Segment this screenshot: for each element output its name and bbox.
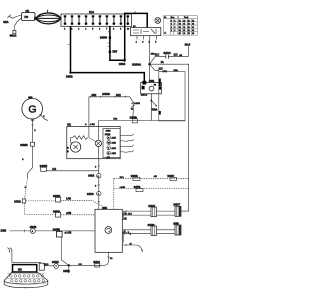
svg-text:8: 8 <box>171 30 172 32</box>
svg-text:23D6: 23D6 <box>119 62 126 66</box>
svg-text:A/D: A/D <box>107 156 111 159</box>
svg-text:31: 31 <box>130 243 132 245</box>
svg-text:7/9: 7/9 <box>24 15 29 19</box>
svg-text:1: 1 <box>64 28 65 30</box>
svg-text:10.6: 10.6 <box>185 42 191 46</box>
svg-text:24DB: 24DB <box>53 209 60 213</box>
svg-text:6/32: 6/32 <box>92 94 97 97</box>
svg-text:16: 16 <box>192 24 194 26</box>
svg-text:11C: 11C <box>155 54 159 57</box>
svg-text:2: 2 <box>43 116 45 118</box>
svg-text:8/3A4: 8/3A4 <box>10 35 17 38</box>
svg-text:50: 50 <box>154 85 157 87</box>
svg-text:1/1: 1/1 <box>26 9 30 13</box>
svg-text:4/24B: 4/24B <box>30 226 37 229</box>
svg-text:24DC: 24DC <box>93 261 100 264</box>
svg-text:24M: 24M <box>173 221 179 225</box>
svg-text:17: 17 <box>192 27 194 29</box>
svg-text:7/1B: 7/1B <box>151 53 156 55</box>
svg-text:7: 7 <box>106 28 107 30</box>
svg-text:2A: 2A <box>161 61 164 64</box>
svg-text:1/2A: 1/2A <box>174 69 179 72</box>
svg-text:Fu: Fu <box>164 17 166 19</box>
svg-text:32: 32 <box>188 24 190 26</box>
svg-text:4/51: 4/51 <box>102 206 108 210</box>
svg-text:6: 6 <box>95 166 97 168</box>
svg-text:A2/B: A2/B <box>112 142 117 145</box>
svg-text:24DC: 24DC <box>164 51 171 55</box>
svg-text:8: 8 <box>142 41 144 43</box>
svg-text:A2/A: A2/A <box>112 136 117 139</box>
svg-text:6: 6 <box>22 159 24 161</box>
svg-text:G: G <box>28 104 36 116</box>
svg-text:28: 28 <box>183 33 185 35</box>
svg-text:25: 25 <box>183 24 185 26</box>
svg-text:2: 2 <box>71 28 72 30</box>
svg-text:6: 6 <box>171 27 172 29</box>
svg-text:8: 8 <box>113 28 114 30</box>
svg-text:24/1B: 24/1B <box>52 261 59 264</box>
svg-text:Item: Item <box>171 16 175 19</box>
svg-text:24DD: 24DD <box>87 192 94 196</box>
svg-text:B-: B- <box>165 33 167 35</box>
svg-text:24/28: 24/28 <box>63 270 70 273</box>
svg-text:3: 3 <box>171 20 172 22</box>
svg-text:24MB: 24MB <box>20 143 27 147</box>
svg-text:26: 26 <box>183 27 185 29</box>
svg-text:6: 6 <box>95 185 97 187</box>
svg-text:241A: 241A <box>88 174 94 178</box>
svg-text:7/32: 7/32 <box>113 118 118 120</box>
svg-text:24DT: 24DT <box>173 203 180 207</box>
svg-text:4/6: 4/6 <box>154 176 158 178</box>
svg-text:3: 3 <box>78 28 79 30</box>
svg-text:6: 6 <box>34 130 36 132</box>
svg-text:11C: 11C <box>174 54 178 57</box>
svg-text:31/30A: 31/30A <box>132 62 141 66</box>
svg-text:31: 31 <box>188 20 190 22</box>
svg-text:18: 18 <box>192 30 194 32</box>
svg-text:+1GB: +1GB <box>134 103 140 105</box>
svg-text:24DB: 24DB <box>148 223 155 227</box>
svg-text:7/2: 7/2 <box>131 109 135 111</box>
svg-text:5-B: 5-B <box>52 168 56 171</box>
svg-text:15: 15 <box>192 20 194 22</box>
svg-text:2: 2 <box>174 30 175 32</box>
svg-text:11A: 11A <box>89 10 94 14</box>
svg-text:13: 13 <box>179 27 181 29</box>
svg-text:9: 9 <box>174 27 175 29</box>
svg-text:34: 34 <box>188 30 190 32</box>
svg-text:6/9: 6/9 <box>28 95 33 99</box>
svg-text:A2/D: A2/D <box>112 152 117 155</box>
svg-text:24DB: 24DB <box>66 75 73 79</box>
svg-text:24: 24 <box>183 20 185 22</box>
svg-text:A: A <box>85 123 87 126</box>
svg-text:6/1: 6/1 <box>18 268 22 272</box>
svg-text:9: 9 <box>120 28 121 30</box>
svg-text:14: 14 <box>179 30 181 32</box>
svg-text:24V30: 24V30 <box>100 37 108 40</box>
svg-text:8/3A: 8/3A <box>3 21 8 24</box>
svg-text:1/1B: 1/1B <box>1 229 7 233</box>
svg-text:24DF: 24DF <box>148 204 155 208</box>
svg-text:1/2B: 1/2B <box>106 131 111 133</box>
svg-text:5-B: 5-B <box>79 264 83 266</box>
svg-text:50M: 50M <box>149 79 154 83</box>
svg-text:27: 27 <box>183 30 185 32</box>
svg-text:A2/C: A2/C <box>112 147 117 150</box>
svg-text:33: 33 <box>188 27 190 29</box>
svg-text:4: 4 <box>171 24 172 26</box>
svg-text:7/0A: 7/0A <box>152 108 158 112</box>
svg-text:24/31: 24/31 <box>14 199 21 203</box>
svg-text:19: 19 <box>192 33 194 35</box>
svg-text:Track: Track <box>184 16 188 19</box>
svg-text:A/4B: A/4B <box>66 212 71 215</box>
svg-text:3: 3 <box>155 41 157 43</box>
svg-text:L/MB: L/MB <box>120 187 126 189</box>
svg-text:5: 5 <box>92 28 93 30</box>
svg-text:12: 12 <box>179 24 181 26</box>
svg-text:A2/2B: A2/2B <box>105 133 111 136</box>
svg-text:4/2A-B: 4/2A-B <box>141 94 148 97</box>
svg-text:15: 15 <box>124 218 126 220</box>
svg-text:35: 35 <box>188 33 190 35</box>
svg-text:1: 1 <box>136 41 138 43</box>
svg-text:15: 15 <box>179 33 181 35</box>
svg-text:7/97: 7/97 <box>112 51 117 54</box>
svg-text:31/2: 31/2 <box>116 94 121 97</box>
svg-text:24/9B: 24/9B <box>102 92 109 96</box>
svg-text:31: 31 <box>110 258 113 260</box>
svg-text:3/1: 3/1 <box>67 123 71 127</box>
svg-text:5: 5 <box>174 20 175 22</box>
svg-text:11: 11 <box>179 20 181 22</box>
svg-text:L/4B: L/4B <box>66 199 71 201</box>
svg-text:7: 7 <box>174 24 175 26</box>
svg-text:B/O: B/O <box>120 177 124 179</box>
svg-text:10: 10 <box>127 28 129 30</box>
svg-text:4-R1: 4-R1 <box>90 124 96 126</box>
svg-text:4: 4 <box>85 28 86 30</box>
svg-text:a L/4B: a L/4B <box>65 232 72 234</box>
svg-text:6: 6 <box>99 28 100 30</box>
